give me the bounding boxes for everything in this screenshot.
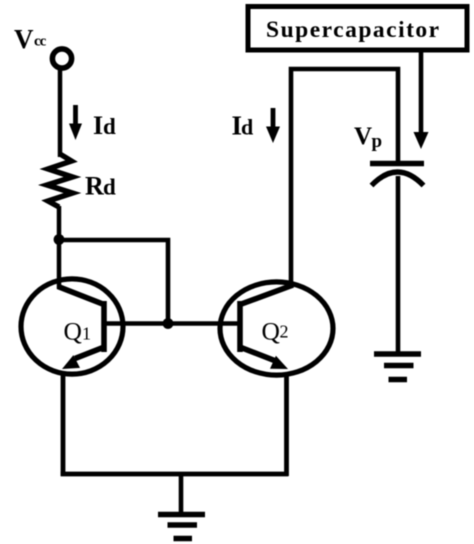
svg-text:2: 2 <box>280 322 289 342</box>
svg-text:d: d <box>241 115 253 140</box>
label Vp <box>354 123 382 152</box>
svg-text:Supercapacitor: Supercapacitor <box>266 17 441 43</box>
label Id right <box>232 111 254 141</box>
label Vcc <box>14 24 47 54</box>
current arrow Id right <box>266 108 280 143</box>
box Supercapacitor <box>248 7 467 51</box>
wire capacitor to ground <box>396 176 401 354</box>
wire base rail Q1 to Q2 <box>103 321 241 326</box>
label Rd <box>85 172 116 201</box>
wire node A to base rail (feedback loop) <box>59 240 168 325</box>
wire resistor to node A <box>57 206 62 244</box>
label Id left <box>93 111 116 140</box>
terminal Vcc <box>52 49 71 68</box>
arrow box to capacitor <box>414 52 429 149</box>
capacitor Vp bottom plate (curved) <box>372 172 424 186</box>
wire Q1 emitter down <box>61 372 66 476</box>
wire supercap bridge <box>291 69 398 288</box>
svg-text:1: 1 <box>82 324 91 344</box>
capacitor Vp top plate <box>370 161 424 166</box>
node A junction dot <box>54 234 65 245</box>
ground right <box>374 354 421 380</box>
svg-text:p: p <box>372 131 383 152</box>
wire ground stub <box>179 474 184 514</box>
transistor Q1 <box>21 279 123 374</box>
label Q1 <box>64 317 92 346</box>
svg-text:d: d <box>103 175 116 200</box>
wire node A down to Q1 collector <box>57 238 62 289</box>
transistor Q2 <box>220 282 333 375</box>
svg-text:V: V <box>354 123 372 150</box>
svg-text:cc: cc <box>34 34 47 50</box>
resistor Rd <box>47 154 73 207</box>
ground center <box>158 515 205 539</box>
svg-text:R: R <box>85 172 104 201</box>
current arrow Id left <box>69 105 82 140</box>
wire bottom rail <box>61 472 289 477</box>
svg-text:Q: Q <box>262 317 280 346</box>
node B junction dot <box>163 318 174 329</box>
svg-text:Q: Q <box>64 317 82 346</box>
svg-text:d: d <box>103 114 116 139</box>
wire Vcc to resistor <box>58 70 63 157</box>
svg-text:I: I <box>93 111 103 140</box>
wire Q2 emitter down <box>284 374 289 476</box>
label Q2 <box>262 317 289 346</box>
svg-text:V: V <box>14 24 34 54</box>
